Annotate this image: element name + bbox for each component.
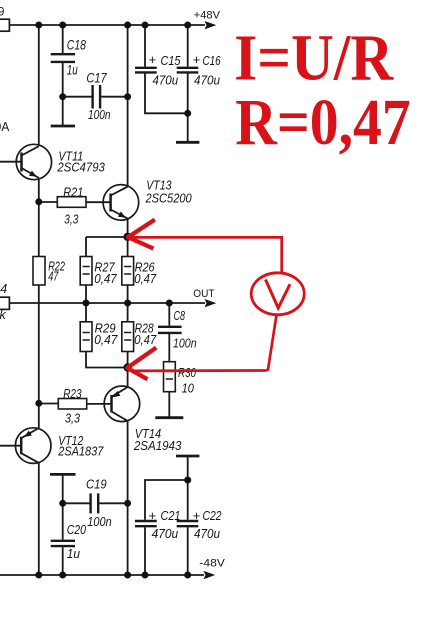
svg-text:2SC4793: 2SC4793	[57, 160, 106, 175]
svg-text:4: 4	[0, 282, 7, 296]
svg-text:470u: 470u	[194, 527, 220, 541]
svg-text:R30: R30	[178, 366, 196, 380]
svg-text:3,3: 3,3	[64, 213, 78, 227]
svg-text:I=U/R: I=U/R	[234, 22, 394, 95]
svg-text:1u: 1u	[67, 62, 78, 77]
svg-text:47: 47	[48, 270, 59, 284]
svg-text:470u: 470u	[194, 73, 220, 87]
svg-text:C20: C20	[67, 522, 87, 537]
svg-text:k: k	[0, 308, 7, 322]
svg-text:1u: 1u	[67, 546, 80, 561]
svg-text:+: +	[148, 52, 156, 67]
svg-text:0,47: 0,47	[94, 333, 118, 347]
svg-text:C19: C19	[86, 476, 107, 491]
svg-text:+: +	[193, 508, 201, 523]
svg-text:C21: C21	[161, 509, 181, 523]
svg-text:470u: 470u	[153, 73, 179, 87]
svg-text:-48V: -48V	[199, 558, 225, 570]
svg-text:9A: 9A	[0, 120, 10, 134]
svg-text:R23: R23	[63, 387, 81, 401]
svg-text:C18: C18	[67, 37, 87, 52]
svg-text:3,3: 3,3	[65, 412, 80, 426]
svg-text:+: +	[193, 52, 201, 67]
svg-text:2SC5200: 2SC5200	[145, 191, 193, 206]
svg-text:100n: 100n	[87, 515, 111, 529]
svg-text:C22: C22	[203, 509, 222, 523]
svg-text:100n: 100n	[88, 108, 111, 122]
svg-text:2SA1943: 2SA1943	[133, 438, 182, 453]
svg-text:OUT: OUT	[193, 288, 214, 300]
svg-text:10: 10	[182, 382, 194, 396]
svg-text:470u: 470u	[152, 527, 179, 541]
svg-text:0,47: 0,47	[134, 333, 157, 347]
svg-text:C8: C8	[174, 309, 186, 323]
svg-text:2SA1837: 2SA1837	[57, 444, 103, 459]
svg-text:R21: R21	[63, 185, 83, 199]
svg-text:+48V: +48V	[194, 9, 221, 21]
svg-text:100n: 100n	[173, 336, 197, 350]
svg-text:C15: C15	[161, 54, 181, 68]
svg-text:+: +	[148, 508, 156, 523]
svg-text:C16: C16	[203, 54, 221, 68]
svg-text:0,47: 0,47	[94, 272, 117, 286]
svg-text:R=0,47: R=0,47	[235, 86, 411, 159]
svg-text:C17: C17	[86, 71, 107, 86]
svg-text:0,47: 0,47	[134, 272, 157, 286]
svg-text:9: 9	[0, 7, 4, 19]
